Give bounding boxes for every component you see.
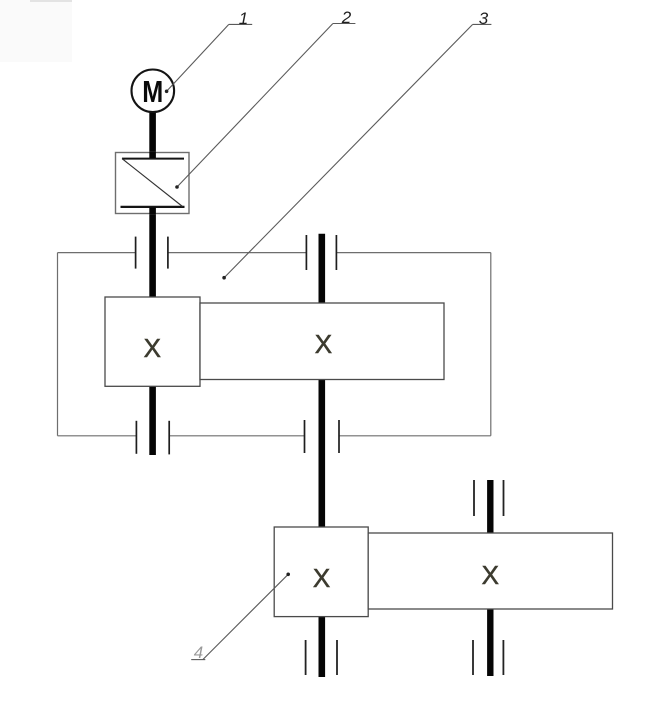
svg-text:1: 1 <box>239 9 248 28</box>
svg-text:M: M <box>142 74 163 109</box>
lower bearings (plain line pairs) <box>306 480 504 675</box>
gear z4 <box>368 533 612 609</box>
svg-text:4: 4 <box>194 643 203 662</box>
shaft II (intermediate, through both stages) <box>318 234 325 677</box>
gear z3 <box>274 527 368 617</box>
leader 4 <box>203 574 288 659</box>
shaft stubs through coupling flange zones <box>149 152 156 158</box>
svg-text:3: 3 <box>479 9 489 28</box>
belt drive (variator) symbol <box>116 153 190 214</box>
leader 2 <box>177 24 333 188</box>
shaft I (motor to gearbox) <box>149 111 156 455</box>
gear z1 <box>105 297 200 386</box>
bearings (ticks) on housing <box>136 235 339 454</box>
svg-text:X: X <box>482 560 499 590</box>
svg-text:X: X <box>144 333 161 363</box>
svg-text:X: X <box>313 563 330 593</box>
motor M1 <box>132 70 175 113</box>
faint erased patch top-left <box>0 0 72 62</box>
gearbox housing <box>58 253 491 436</box>
leader 3 <box>224 24 473 277</box>
svg-text:2: 2 <box>341 8 352 27</box>
shaft III (output) <box>487 480 493 676</box>
gear z2 <box>200 303 444 380</box>
svg-text:X: X <box>315 329 332 359</box>
leader 1 <box>167 24 229 91</box>
